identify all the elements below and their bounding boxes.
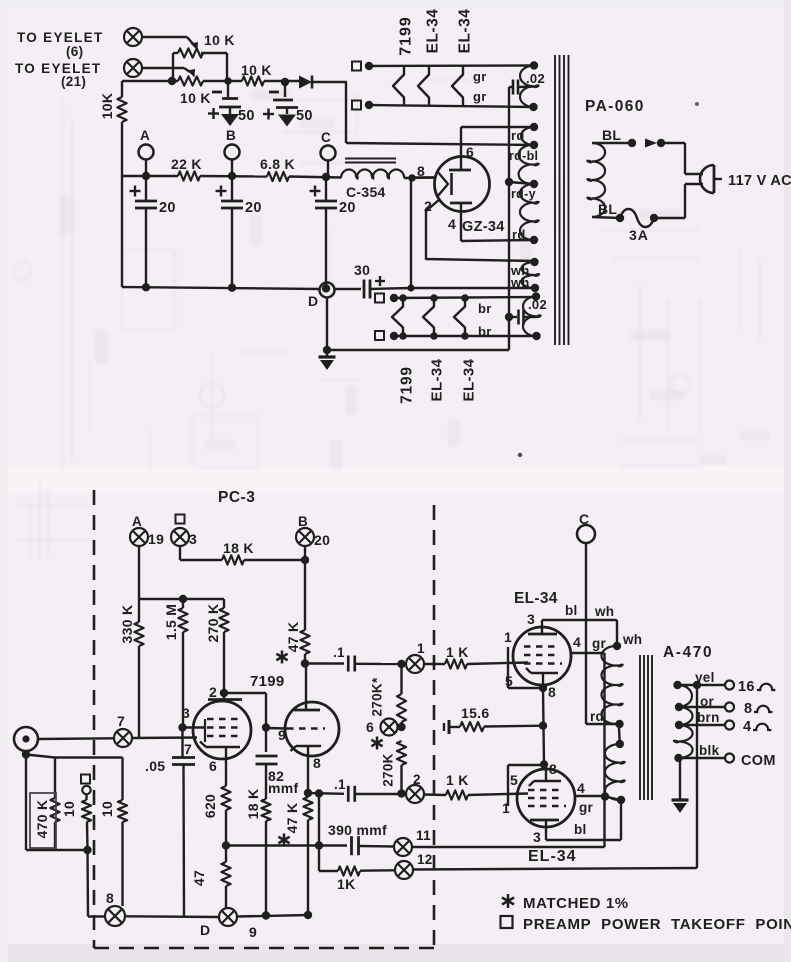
svg-text:brn: brn (697, 710, 720, 725)
ink fleck (518, 453, 522, 457)
takeoff square top upper (352, 62, 361, 71)
svg-text:6: 6 (209, 758, 217, 774)
svg-text:C-354: C-354 (346, 184, 386, 200)
resistor 1K upper (445, 659, 467, 668)
svg-text:6.8 K: 6.8 K (260, 156, 295, 172)
svg-text:7199: 7199 (398, 366, 415, 404)
wire node line y599 (139, 598, 224, 600)
eyelet to (6) (124, 28, 142, 46)
svg-text:12: 12 (417, 852, 433, 867)
svg-text:or: or (700, 694, 715, 709)
wire rd bottom to pin4 (461, 240, 534, 241)
wire or tap (679, 706, 725, 708)
svg-text:9: 9 (278, 727, 286, 743)
svg-text:EL-34: EL-34 (528, 848, 577, 865)
ground A470 (672, 798, 689, 801)
resistor 1.5M (182, 599, 184, 608)
svg-text:9: 9 (249, 924, 257, 940)
potentiometer R 10K upper (178, 48, 203, 57)
svg-text:.05: .05 (145, 758, 165, 774)
resistor 620 (225, 785, 227, 786)
junction cap50-2 (281, 78, 289, 86)
svg-text:20: 20 (314, 532, 330, 548)
terminal C (321, 146, 336, 161)
svg-text:TO EYELET: TO EYELET (15, 61, 101, 76)
jack sleeve junction (22, 750, 30, 758)
svg-text:PREAMP POWER TAKEOFF POINT: PREAMP POWER TAKEOFF POINT (523, 916, 791, 933)
svg-text:3A: 3A (629, 227, 649, 243)
svg-text:11: 11 (416, 828, 431, 843)
junction A bus (142, 172, 150, 180)
wire bottom bus y287 (122, 287, 320, 289)
junction C bus (322, 173, 330, 181)
junction CT lower (616, 740, 624, 748)
resistor 10K series (242, 76, 264, 85)
7199 triode grid (287, 727, 325, 729)
wire ground bus (125, 915, 219, 918)
resistor 270K star upper (400, 664, 402, 694)
wire diode to rd-bl tap (345, 82, 347, 143)
resistor 22K (178, 171, 200, 180)
svg-text:620: 620 (202, 794, 218, 818)
7199 pentode grids (207, 718, 242, 720)
EL34b plate (530, 819, 559, 822)
EL34t plate (528, 633, 557, 636)
GZ34 filament (437, 171, 448, 197)
wire ground to center-tap line (327, 349, 509, 351)
eyelet 7 (114, 729, 132, 747)
svg-text:50: 50 (296, 108, 313, 124)
svg-text:wh: wh (510, 275, 530, 290)
wire fb 1K branch (318, 846, 320, 872)
svg-text:(6): (6) (66, 44, 83, 59)
wire eyelet11 to screens (412, 846, 605, 848)
svg-text:390 mmf: 390 mmf (328, 822, 387, 838)
terminal 4 ohm (725, 721, 734, 730)
eyelet A 19 (130, 528, 148, 546)
wire screens bus (603, 653, 605, 847)
resistor 1K feedback (338, 866, 360, 875)
svg-text:8: 8 (744, 701, 752, 717)
wire sleeve line (26, 755, 123, 758)
resistor 47K matched B (300, 630, 309, 654)
dashed border PC-3 bottom (94, 947, 435, 950)
svg-text:yel: yel (695, 670, 715, 685)
terminal COM (725, 754, 734, 763)
svg-text:.02: .02 (526, 71, 545, 86)
7199 triode plate (294, 709, 320, 712)
eyelet 9 D (219, 908, 237, 926)
svg-text:6: 6 (366, 719, 374, 735)
svg-text:47 K: 47 K (285, 622, 301, 653)
EL34b cathode lead (545, 764, 547, 781)
wire C down to CT (585, 543, 587, 724)
resistor 330K (138, 599, 140, 622)
heater filament top 3 (452, 66, 463, 106)
wire 1K to grid5 top EL34 (467, 663, 528, 665)
GZ34 pin2 lead (426, 199, 535, 261)
switch on-off (645, 139, 657, 148)
label star lower (283, 834, 286, 847)
wire pot1 left leg (172, 53, 174, 81)
resistor 1K lower (446, 790, 468, 799)
ink fleck 2 (695, 102, 699, 106)
svg-text:270K: 270K (381, 753, 396, 786)
heater bus top lower (369, 105, 534, 107)
svg-text:.1: .1 (333, 645, 345, 660)
winding A470 primary lower (605, 744, 620, 800)
winding 6.3V gr (520, 66, 534, 108)
svg-text:gr: gr (579, 800, 594, 815)
takeoff square eyelet3 (176, 515, 185, 524)
capacitor .1 upper (347, 656, 350, 672)
svg-text:EL-34: EL-34 (460, 358, 477, 401)
junction lower 02 (505, 313, 513, 321)
heater filament bottom 1 (392, 298, 403, 336)
takeoff square R10-1 (81, 775, 90, 784)
wire eyelet12 to yel tap (413, 868, 697, 870)
GZ34 plate bottom (450, 202, 472, 205)
wire bias bus y81 (122, 80, 178, 82)
wire cap30 to wh winding (411, 287, 535, 289)
choke C-354 core (345, 158, 396, 160)
terminal 16 ohm (725, 681, 734, 690)
svg-text:br: br (478, 301, 492, 316)
svg-text:10: 10 (99, 801, 115, 817)
svg-text:5: 5 (510, 772, 518, 788)
junction 15.6 (539, 722, 547, 730)
svg-text:4: 4 (743, 719, 751, 735)
junction 47K bus (304, 911, 312, 919)
7199 grid bracket (204, 719, 206, 742)
EL34t grids (524, 645, 560, 647)
dashed border PC-3 left (93, 490, 96, 948)
polarity + cap50-1 (208, 112, 219, 114)
svg-text:330 K: 330 K (119, 605, 135, 644)
terminal C pc3 (577, 525, 595, 543)
eyelet 8 (105, 906, 125, 926)
7199 grid3 lead (184, 726, 205, 728)
tube 7199 pentode envelope (193, 701, 251, 759)
svg-text:PC-3: PC-3 (218, 489, 255, 506)
polarity + cap C (310, 190, 321, 192)
svg-text:10 K: 10 K (180, 90, 211, 106)
svg-text:rd-y: rd-y (511, 187, 536, 201)
terminal 8 ohm (725, 703, 734, 712)
resistor 270K plate (223, 599, 225, 608)
tube GZ-34 envelope (435, 157, 490, 212)
7199 cathode lead pin6 (225, 747, 227, 785)
svg-text:TO EYELET: TO EYELET (17, 30, 103, 45)
svg-text:A-470: A-470 (663, 644, 713, 661)
wire eyelet6 to pot1 wiper (142, 36, 187, 38)
resistor 15.6 (460, 722, 484, 731)
svg-text:4: 4 (573, 634, 581, 650)
junction capB bottom (228, 284, 236, 292)
svg-text:COM: COM (741, 753, 776, 769)
input jack (14, 727, 38, 751)
fuse 3A (620, 209, 654, 227)
resistor 6.8K (267, 172, 289, 181)
svg-text:EL-34: EL-34 (456, 9, 473, 54)
svg-text:C: C (579, 511, 589, 527)
polarity + cap30 (375, 280, 385, 282)
svg-text:8: 8 (549, 761, 557, 777)
EL34b suppressor bracket (507, 765, 509, 806)
core PA-060 (554, 55, 556, 345)
junction 18K bus (262, 911, 270, 919)
junction pin8 EL34b (540, 760, 548, 768)
heater bus top upper (369, 64, 534, 67)
junction B plate node (301, 659, 309, 667)
wire jack to eyelet7 (38, 737, 114, 740)
7199 pentode plate (208, 698, 242, 701)
EL34t suppressor bracket (507, 647, 509, 688)
wire yel tap (678, 684, 726, 686)
capacitor 30uF (335, 288, 362, 290)
junction bias bus left (168, 77, 176, 85)
wire cathode line y793 (308, 792, 344, 795)
winding HV mid (519, 145, 534, 184)
winding HV lower (520, 184, 534, 240)
svg-text:A: A (140, 128, 150, 143)
EL34t screen lead (571, 652, 605, 654)
svg-text:(21): (21) (61, 74, 86, 89)
7199 cathode lead pin8 (307, 746, 309, 793)
svg-text:1 K: 1 K (446, 644, 469, 660)
resistor 18K lower (261, 799, 270, 821)
resistor 10 first (85, 794, 87, 800)
wire 1K to grid5 bottom EL34 (468, 794, 528, 796)
wire eyelet2 to 1K (424, 793, 446, 796)
resistor 15.6 terminal (448, 720, 451, 734)
svg-text:270K*: 270K* (370, 677, 385, 716)
svg-text:18 K: 18 K (223, 540, 254, 556)
wire rd-y center tap (509, 182, 534, 184)
EL34b grids (528, 789, 564, 791)
junction screens (601, 792, 609, 800)
wire D to ground (326, 298, 328, 351)
eyelet B 20 (296, 528, 314, 546)
svg-text:1K: 1K (337, 876, 356, 892)
eyelet 11 (394, 838, 412, 856)
svg-text:gr: gr (473, 89, 487, 104)
core A-470 (639, 655, 641, 800)
wire brn tap (679, 724, 725, 726)
wire switch to plug (661, 142, 685, 144)
wire eyelet1 to 1K (424, 663, 445, 665)
junction fb vertical (315, 841, 323, 849)
svg-text:7: 7 (184, 741, 192, 757)
svg-text:PA-060: PA-060 (585, 98, 645, 115)
tube EL-34 top envelope (513, 627, 571, 685)
GZ34 plate top (449, 169, 471, 172)
svg-text:18 K: 18 K (245, 789, 261, 820)
wire pot1 right leg (226, 53, 228, 81)
junction 620 fb (222, 841, 230, 849)
capacitor 390mmf (350, 836, 353, 855)
svg-text:BL: BL (598, 201, 617, 217)
eyelet 1 (406, 655, 424, 673)
capacitor 20uF node B (231, 177, 233, 202)
resistor 470K (54, 758, 56, 799)
svg-text:D: D (308, 293, 318, 309)
svg-text:wh: wh (594, 604, 614, 619)
wire A eyelet down (138, 546, 140, 599)
winding HV upper (521, 127, 534, 145)
junction cap30 node (407, 284, 414, 291)
wire screens to winding bottom (605, 797, 621, 801)
resistor 18K top (222, 555, 244, 564)
wire B eyelet down (304, 546, 306, 630)
ground chassis top section (326, 350, 328, 357)
winding A470 secondary (678, 685, 692, 707)
svg-text:10 K: 10 K (241, 62, 272, 78)
svg-text:gr: gr (473, 69, 487, 84)
capacitor .02 upper (509, 86, 512, 88)
capacitor 20uF node A (145, 177, 147, 202)
winding 6.3V br (523, 296, 536, 336)
junction 270K mid (397, 723, 405, 731)
junction B bus (228, 172, 236, 180)
svg-text:1: 1 (417, 641, 425, 656)
junction fb node on y793 (315, 789, 323, 797)
terminal B (225, 145, 240, 160)
svg-text:A: A (132, 514, 142, 529)
polarity + cap50-2 (263, 113, 274, 115)
capacitor C 50uF second (284, 84, 286, 97)
winding 5V wh (522, 262, 535, 288)
svg-text:2: 2 (209, 684, 217, 700)
svg-text:4: 4 (448, 216, 456, 232)
svg-text:3: 3 (533, 829, 541, 845)
polarity + cap A (130, 190, 141, 192)
svg-text:rd-bl: rd-bl (509, 149, 538, 163)
svg-text:47 K: 47 K (284, 803, 300, 834)
svg-text:47: 47 (191, 870, 207, 886)
resistor 10 second (121, 758, 123, 801)
svg-text:10: 10 (61, 801, 77, 817)
wire primary top (592, 142, 632, 144)
wire 390 to eyelet11 (359, 845, 395, 848)
terminal circle R10-1 (82, 786, 90, 794)
wire plate line y663 (305, 662, 344, 664)
heater filament bottom 2 (423, 298, 434, 336)
svg-text:wh: wh (622, 632, 642, 647)
wire 15.6 to bus (484, 725, 543, 728)
svg-text:20: 20 (245, 200, 262, 216)
svg-text:3: 3 (182, 705, 190, 721)
junction cap50-1 (224, 77, 232, 85)
junction D ground (323, 346, 331, 354)
capacitor 20uF node C (325, 177, 327, 202)
takeoff square top lower (352, 101, 361, 110)
wire 1K to eyelet12 (360, 869, 395, 872)
wire primary bottom to fuse (592, 217, 620, 218)
svg-text:1: 1 (502, 800, 510, 816)
junction rd-y ct (505, 178, 513, 186)
box around 470K (30, 793, 56, 848)
capacitor C 50uF first (227, 84, 229, 97)
svg-text:5: 5 (505, 673, 513, 689)
winding A470 primary upper (601, 646, 618, 724)
svg-text:blk: blk (699, 743, 720, 758)
wire node8 down (410, 178, 412, 288)
junction R10-1 sleeve (83, 846, 91, 854)
svg-text:6: 6 (466, 144, 474, 160)
wire plug lower prong (685, 183, 703, 185)
svg-text:470 K: 470 K (34, 800, 50, 839)
heater filament bottom 3 (454, 298, 465, 336)
resistor 47K star lower (303, 797, 312, 820)
wire sleeve down (25, 755, 27, 851)
svg-text:7199: 7199 (250, 673, 285, 690)
svg-text:8: 8 (106, 890, 114, 906)
wire CT gap (619, 724, 620, 744)
svg-text:2: 2 (413, 772, 421, 787)
svg-text:117 V AC: 117 V AC (728, 173, 791, 189)
label star mid (376, 737, 379, 750)
svg-text:20: 20 (159, 200, 176, 216)
legend square (501, 916, 513, 928)
svg-text:7199: 7199 (398, 16, 415, 56)
svg-text:EL-34: EL-34 (428, 358, 445, 401)
tube EL-34 bottom envelope (517, 769, 575, 827)
EL34b cathode (534, 780, 561, 783)
svg-text:8: 8 (313, 755, 321, 771)
svg-text:3: 3 (527, 611, 535, 627)
svg-text:EL-34: EL-34 (514, 590, 558, 607)
capacitor .1 lower (347, 786, 350, 802)
wire bus right (237, 915, 309, 917)
wire fuse to plug (654, 217, 685, 219)
heater filament top 1 (393, 66, 404, 106)
heater bus bottom lower (394, 335, 537, 337)
wire blk tap (679, 757, 726, 759)
wire eyelet3 down (179, 546, 181, 560)
plug 117V (700, 165, 714, 193)
wire filter bus y176 (122, 175, 178, 177)
GZ34 pin8 lead (412, 176, 436, 178)
svg-text:EL-34: EL-34 (424, 9, 441, 54)
dashed border PC-3 right (433, 505, 436, 948)
takeoff square bottom upper (375, 294, 384, 303)
EL34b screen lead (575, 795, 605, 797)
wire rd top to pin6 (461, 126, 534, 128)
ground cap50-1 (221, 114, 239, 126)
7199 pentode cathode (206, 746, 240, 749)
heater bus bottom upper (394, 297, 536, 298)
svg-text:MATCHED 1%: MATCHED 1% (523, 895, 629, 912)
wire center-tap vertical x509 (508, 87, 510, 350)
capacitor .05 (181, 728, 183, 758)
potentiometer R 10K lower (178, 76, 203, 85)
svg-text:7: 7 (117, 713, 125, 729)
wire cap to eyelet2 (355, 793, 407, 795)
resistor 47 (221, 862, 230, 886)
svg-text:1 K: 1 K (446, 772, 469, 788)
wire cathode bus (543, 688, 544, 764)
ground cap50-2 (278, 115, 296, 127)
wire blk to ground (679, 758, 681, 800)
junction capA bottom (142, 283, 150, 291)
svg-text:20: 20 (339, 200, 356, 216)
svg-text:mmf: mmf (268, 780, 298, 796)
svg-text:15.6: 15.6 (461, 705, 489, 721)
wire eyelet7 to grid (132, 736, 197, 739)
7199 coupling plate to grid9 (220, 689, 228, 697)
diode bias rectifier (299, 76, 312, 89)
